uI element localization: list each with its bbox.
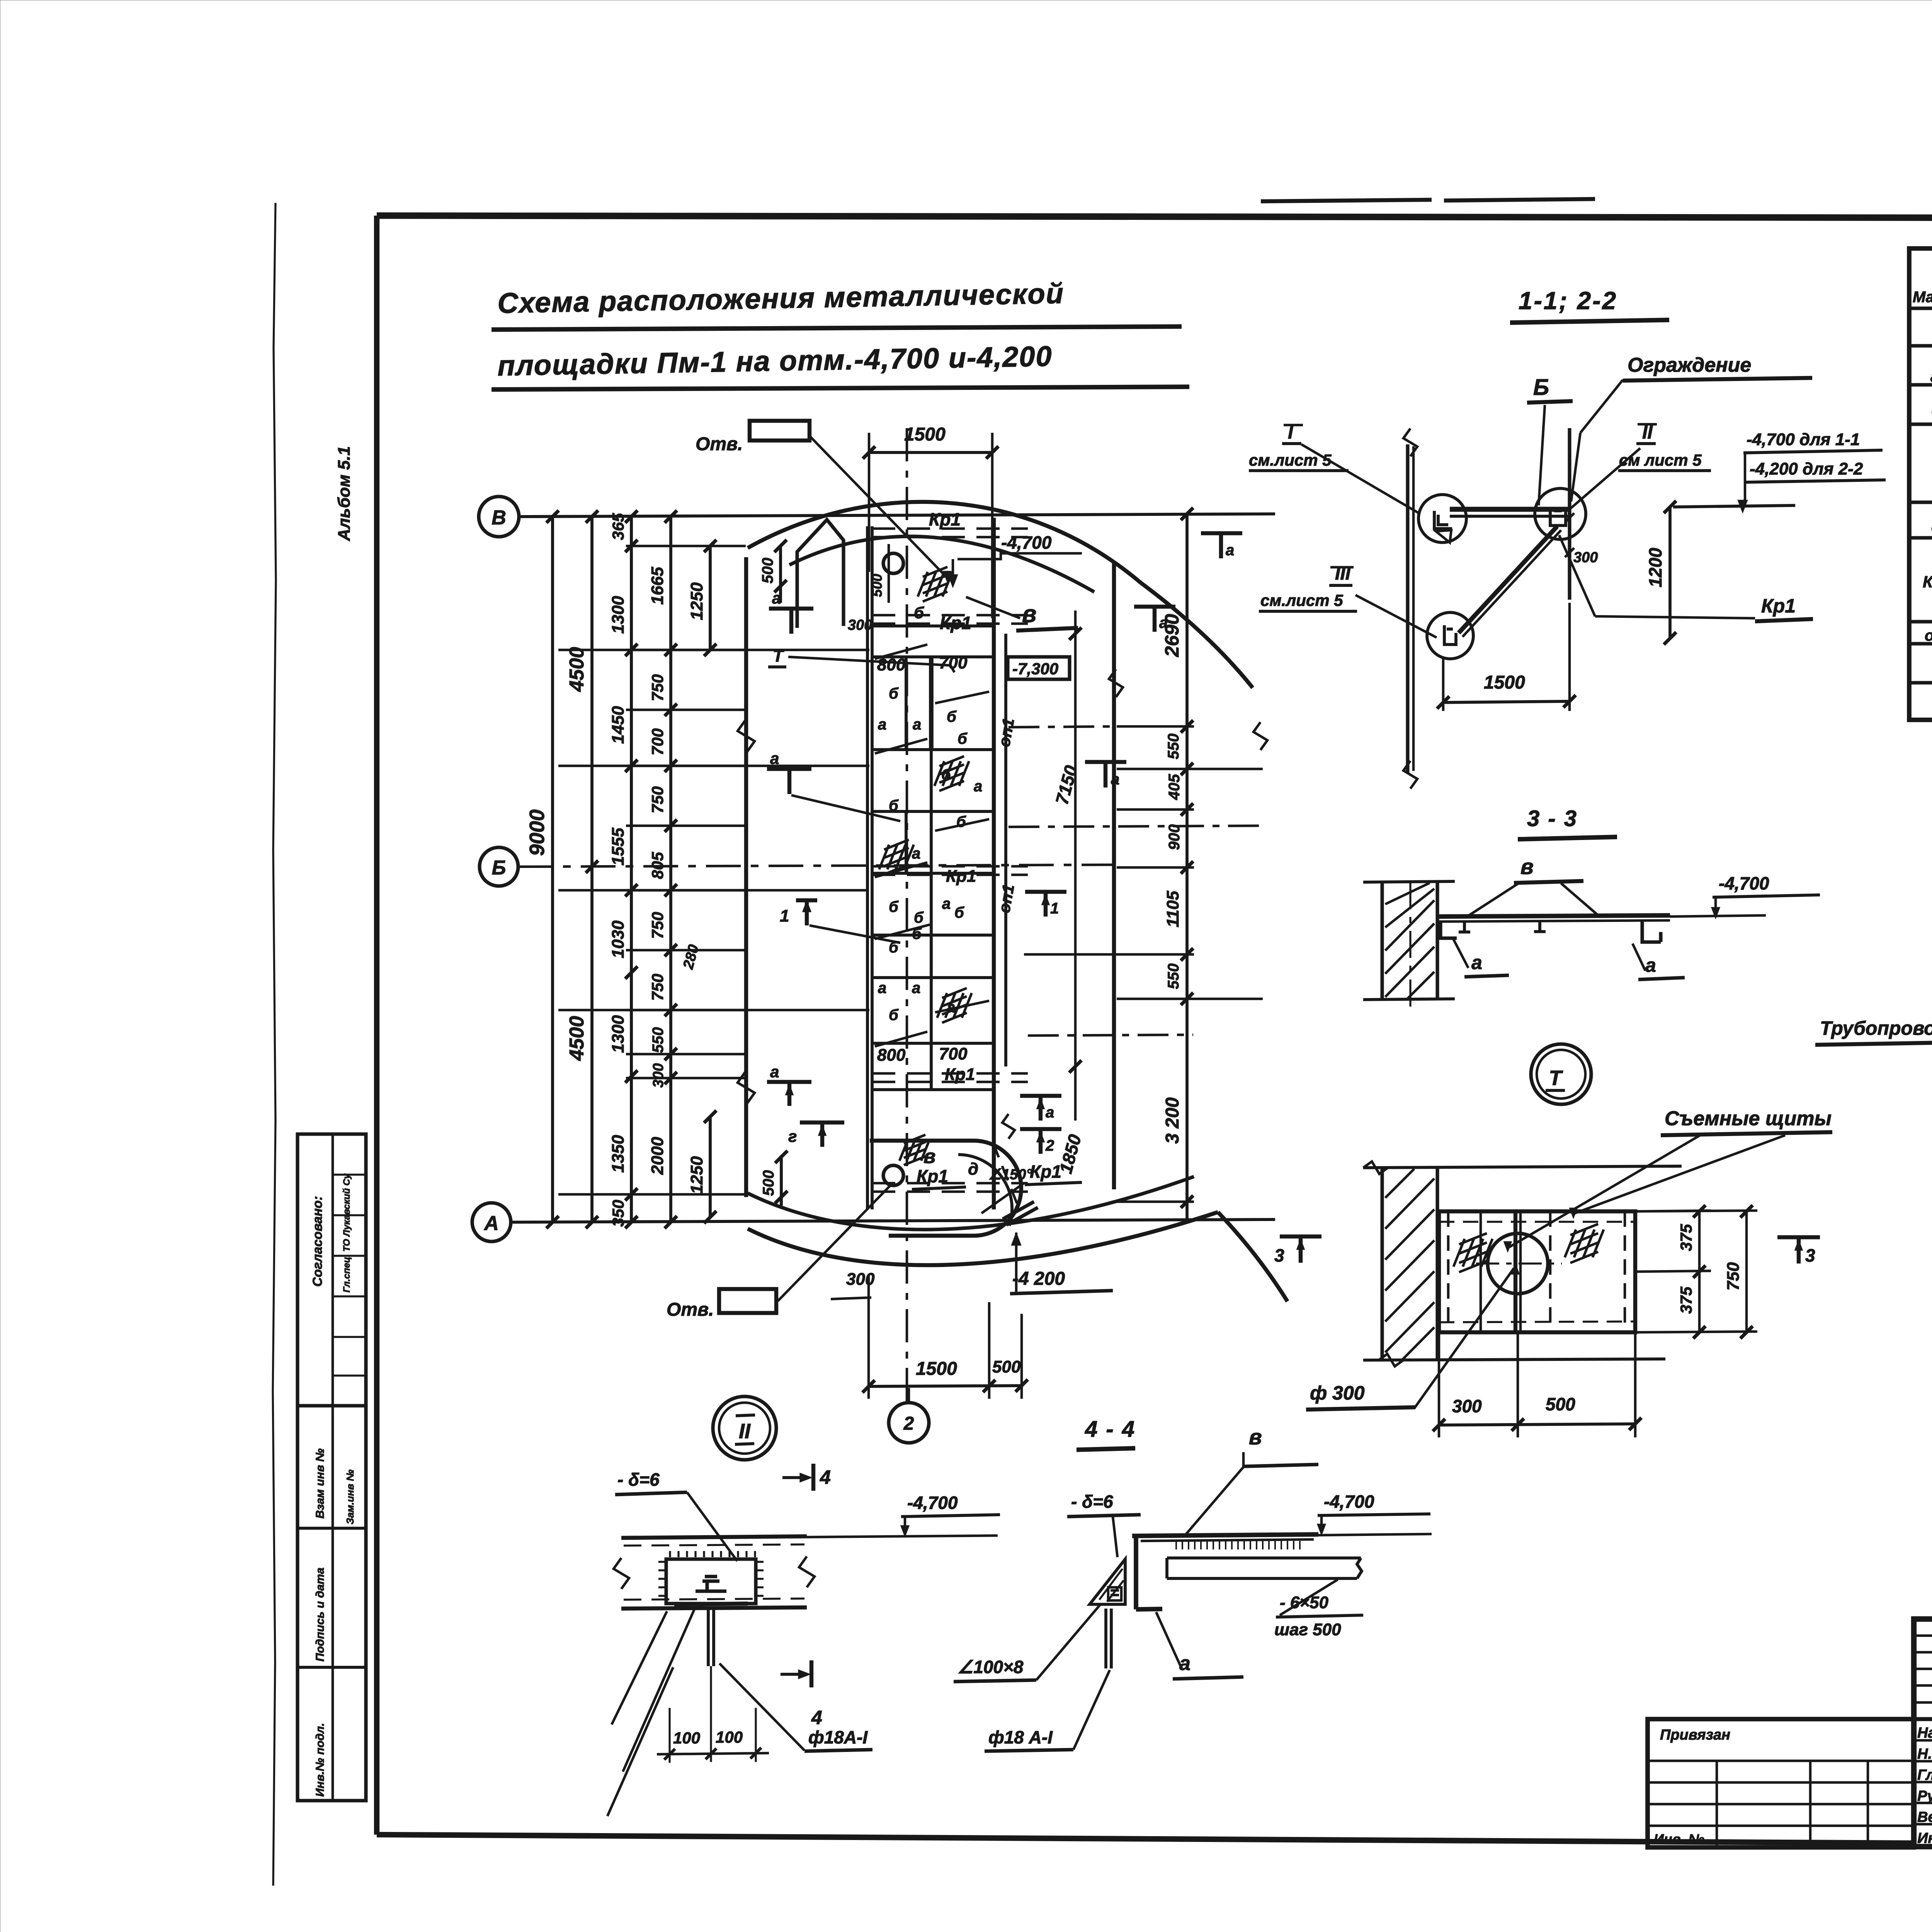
ladder middle rail	[930, 657, 933, 1090]
svg-text:в: в	[923, 1145, 935, 1168]
svg-text:в: в	[1249, 1425, 1262, 1449]
flag Та mid right	[1085, 762, 1126, 787]
axis line В	[519, 514, 1275, 517]
svg-text:Зам.инв №: Зам.инв №	[344, 1469, 356, 1524]
table header line2	[1909, 307, 1932, 308]
svg-text:Инжен.: Инжен.	[1917, 1830, 1932, 1847]
dimension 1500 top	[869, 451, 992, 454]
axis circle А	[472, 1203, 511, 1242]
angle 150 arc	[958, 1155, 1012, 1226]
svg-text:Марка: Марка	[1913, 289, 1932, 306]
svg-text:750: 750	[648, 974, 667, 1001]
svg-text:1: 1	[780, 906, 789, 925]
opl chord line	[1004, 634, 1007, 1066]
dimension 500 upper	[779, 546, 782, 603]
svg-text:300: 300	[1452, 1396, 1482, 1416]
diag leader II second	[607, 1667, 673, 1816]
svg-text:-4,700: -4,700	[1001, 532, 1052, 553]
dimension 1250 upper	[709, 546, 712, 650]
tank top outer arc	[748, 502, 1141, 583]
svg-text:Т: Т	[1549, 1066, 1563, 1090]
svg-text:Б: Б	[1533, 375, 1549, 400]
flag Т2 lower	[1020, 1129, 1061, 1154]
svg-text:а: а	[1111, 771, 1119, 788]
hole circle top	[883, 553, 903, 573]
svg-text:3: 3	[1274, 1245, 1284, 1265]
axis line Б	[518, 865, 1113, 867]
svg-text:а: а	[947, 999, 955, 1016]
svg-text:1555: 1555	[609, 828, 628, 866]
svg-text:4500: 4500	[566, 1016, 588, 1061]
svg-text:Гл.спец. ТО Лукавский Су: Гл.спец. ТО Лукавский Су	[342, 1173, 352, 1293]
channel 4-4	[1132, 1534, 1318, 1536]
axis circle 2 below plan	[889, 1403, 929, 1443]
svg-text:500: 500	[760, 1170, 777, 1196]
right extension lines	[1117, 726, 1194, 1202]
svg-text:1300: 1300	[609, 596, 628, 634]
ladder inner cells	[929, 657, 934, 750]
svg-text:-4,200 для 2-2: -4,200 для 2-2	[1750, 459, 1863, 478]
svg-text:а: а	[878, 716, 886, 733]
svg-text:б: б	[889, 898, 899, 915]
shield plan rect	[1439, 1211, 1635, 1332]
svg-text:см лист 5: см лист 5	[1619, 451, 1702, 469]
svg-text:- δ=6: - δ=6	[1071, 1492, 1113, 1512]
svg-text:Т: Т	[773, 646, 784, 665]
svg-text:750: 750	[1724, 1262, 1743, 1291]
svg-text:300: 300	[650, 1063, 667, 1088]
dim 750	[1745, 1211, 1748, 1332]
dim line 7150	[1074, 611, 1077, 1121]
washer plate II	[674, 1604, 748, 1604]
svg-text:Взам инв №: Взам инв №	[314, 1449, 327, 1519]
svg-text:- δ=6: - δ=6	[617, 1469, 660, 1490]
svg-text:а: а	[770, 749, 779, 767]
svg-text:д: д	[968, 1160, 978, 1179]
tank left wall	[744, 557, 748, 1197]
platform dashed stringers	[872, 527, 1028, 530]
svg-text:500: 500	[1546, 1394, 1575, 1414]
svg-text:Согласовано:: Согласовано:	[310, 1196, 325, 1287]
diag leader II	[623, 1607, 696, 1772]
svg-text:а: а	[912, 845, 920, 862]
flag Та lower	[1020, 1096, 1061, 1121]
svg-text:2: 2	[903, 1413, 914, 1434]
guard rail post	[1568, 428, 1571, 600]
svg-text:4500: 4500	[566, 647, 588, 692]
svg-text:1250: 1250	[687, 1156, 706, 1194]
svg-text:1200: 1200	[1645, 548, 1665, 587]
svg-text:Б: Б	[492, 857, 506, 879]
svg-text:б: б	[947, 708, 957, 725]
section mark 3 right	[1777, 1237, 1820, 1264]
bottom edge line T	[1363, 1359, 1665, 1360]
svg-text:Кр1: Кр1	[945, 1065, 975, 1084]
platform supports 3-3	[1459, 921, 1546, 932]
svg-text:а: а	[772, 589, 781, 607]
plan centre axis line	[906, 428, 908, 1403]
svg-text:1500: 1500	[916, 1359, 957, 1379]
section mark аТ 2	[767, 769, 811, 794]
frame top border	[377, 216, 1932, 219]
small dim 500 top	[888, 544, 890, 603]
node circle III	[1427, 612, 1473, 659]
hatch T right	[1565, 1224, 1604, 1263]
tank bottom inner arc	[748, 1177, 1194, 1230]
dim 375 375	[1698, 1211, 1701, 1332]
table outer	[1909, 248, 1932, 720]
svg-text:-4,700 для 1-1: -4,700 для 1-1	[1747, 430, 1860, 449]
detail circle II	[713, 1396, 776, 1460]
svg-text:550: 550	[650, 1027, 667, 1053]
svg-text:Альбом 5.1: Альбом 5.1	[335, 446, 354, 541]
svg-text:100: 100	[716, 1728, 743, 1746]
svg-text:375: 375	[1677, 1224, 1695, 1251]
svg-text:1105: 1105	[1163, 891, 1182, 927]
svg-text:2: 2	[1045, 1137, 1054, 1154]
dimension chain 4500-4500	[590, 517, 594, 1222]
tank right wall chord	[1112, 561, 1116, 1189]
sidebar upper stamp box	[298, 1134, 366, 1406]
section mark аТ 1	[769, 609, 813, 634]
svg-text:а: а	[770, 1063, 779, 1081]
svg-text:а: а	[878, 980, 886, 997]
title block outer	[1914, 1619, 1932, 1847]
detail II beam	[621, 1536, 807, 1538]
svg-text:1500: 1500	[1484, 672, 1525, 693]
extra Тd flag top	[1201, 533, 1242, 558]
svg-text:Н.контр.: Н.контр.	[1917, 1746, 1932, 1762]
hole circle bottom	[883, 1165, 903, 1185]
frame left border	[374, 216, 379, 1835]
svg-text:-4,700: -4,700	[907, 1493, 958, 1513]
svg-text:а: а	[1471, 952, 1482, 973]
right angle 3-3	[1642, 920, 1661, 942]
svg-text:Нач.отд: Нач.отд	[1917, 1725, 1932, 1741]
svg-text:а: а	[942, 895, 951, 912]
detail circle Т	[1531, 1044, 1591, 1104]
svg-text:-4,700: -4,700	[1324, 1492, 1374, 1512]
svg-text:Трубопровод: Трубопровод	[1820, 1017, 1932, 1039]
svg-text:550: 550	[1165, 963, 1182, 989]
svg-text:3: 3	[1805, 1245, 1815, 1265]
svg-text:∠100×8: ∠100×8	[957, 1657, 1024, 1677]
svg-text:ф 300: ф 300	[1310, 1382, 1365, 1404]
bottom platform lobe	[870, 1141, 1021, 1236]
diagonal brace Кр1	[1459, 526, 1557, 633]
svg-text:1-1; 2-2: 1-1; 2-2	[1519, 287, 1617, 315]
svg-text:500: 500	[992, 1357, 1021, 1376]
svg-text:в: в	[1022, 601, 1036, 628]
svg-text:405: 405	[1166, 774, 1183, 800]
svg-text:Отв.: Отв.	[696, 434, 743, 454]
section mark аТ 3	[767, 1082, 811, 1106]
hatch bottom	[900, 1135, 930, 1165]
svg-text:-4 200: -4 200	[1012, 1269, 1065, 1289]
svg-text:300: 300	[848, 617, 872, 633]
ladder left rail	[866, 526, 869, 1209]
dimension 500 lower	[780, 1155, 783, 1206]
svg-text:Кр1: Кр1	[1030, 1162, 1061, 1182]
section mark 4 top	[811, 1464, 815, 1491]
svg-text:Ограждение: Ограждение	[1628, 354, 1751, 376]
svg-text:Подпись и дата: Подпись и дата	[314, 1568, 327, 1662]
scan paper edge left	[273, 203, 276, 1886]
svg-text:а: а	[974, 778, 982, 795]
extra Та flag right top	[1134, 607, 1175, 632]
svg-text:500: 500	[869, 574, 885, 597]
gusset 4-4	[1090, 1559, 1125, 1604]
break marks plan right	[1109, 669, 1123, 697]
section mark 4 bottom	[810, 1660, 813, 1687]
dimension chain left sub	[630, 517, 633, 1222]
Отв box top	[750, 421, 810, 440]
plate 6x50	[1167, 1558, 1362, 1578]
bottom diagonal strut	[1003, 1202, 1038, 1225]
svg-text:3 - 3: 3 - 3	[1527, 806, 1578, 831]
svg-text:Кр1: Кр1	[1923, 573, 1932, 591]
left angle 3-3	[1440, 922, 1457, 938]
frame top overline segment	[1261, 200, 1432, 201]
title underline 1	[492, 327, 1182, 330]
axis line А	[511, 1219, 1275, 1222]
svg-text:750: 750	[648, 786, 667, 813]
svg-text:В: В	[492, 507, 506, 529]
dimension 1250 lower	[709, 1117, 712, 1217]
svg-text:Инв. №: Инв. №	[1654, 1831, 1704, 1847]
svg-text:300: 300	[1573, 549, 1598, 566]
svg-text:а: а	[1179, 1652, 1190, 1675]
svg-text:365: 365	[609, 513, 627, 540]
anchor rod II	[707, 1609, 710, 1666]
svg-text:700: 700	[939, 1044, 968, 1063]
svg-text:II: II	[739, 1420, 751, 1443]
hatch T left	[1454, 1233, 1493, 1272]
svg-text:Отв.: Отв.	[667, 1299, 714, 1320]
svg-text:1665: 1665	[648, 567, 667, 605]
svg-text:800: 800	[877, 655, 906, 674]
left extension lines	[626, 546, 746, 1078]
svg-text:Кр1: Кр1	[917, 1166, 948, 1186]
svg-text:б: б	[957, 730, 968, 747]
svg-text:700: 700	[648, 728, 667, 755]
left approval table	[1648, 1719, 1914, 1847]
top edge line T	[1363, 1166, 1682, 1168]
svg-text:см.лист 5: см.лист 5	[1260, 591, 1343, 609]
section mark 2 up	[800, 1122, 844, 1147]
stair opening outline	[797, 520, 844, 628]
svg-text:375: 375	[1677, 1286, 1695, 1314]
dim 1500 section	[1443, 701, 1570, 702]
svg-text:-4,700: -4,700	[1719, 873, 1769, 893]
platform rung lines	[872, 624, 994, 628]
svg-text:б: б	[914, 909, 924, 926]
svg-text:300: 300	[846, 1270, 875, 1289]
wall detail T	[1380, 1168, 1384, 1360]
svg-text:4: 4	[811, 1707, 822, 1728]
svg-text:Кр1: Кр1	[940, 613, 971, 633]
svg-text:800: 800	[877, 1046, 906, 1065]
svg-text:б: б	[954, 904, 964, 921]
svg-text:а: а	[1159, 614, 1168, 631]
svg-text:4: 4	[820, 1466, 831, 1488]
right dim chain inner	[1185, 514, 1189, 1219]
svg-text:350: 350	[609, 1200, 627, 1227]
svg-text:750: 750	[648, 674, 667, 701]
gusset box II	[666, 1559, 756, 1604]
svg-text:∠150°: ∠150°	[988, 1167, 1032, 1183]
node circle II	[1535, 488, 1586, 539]
svg-text:ф18 А-I: ф18 А-I	[988, 1727, 1053, 1747]
table row lines	[1909, 345, 1932, 346]
svg-text:Инв.№ подл.: Инв.№ подл.	[314, 1723, 327, 1797]
Отв box bottom	[719, 1289, 776, 1313]
wall 3-3	[1380, 882, 1384, 1000]
dimension chain inner sub	[669, 517, 672, 1222]
svg-text:Кр1: Кр1	[1761, 595, 1796, 617]
platform right rail	[992, 518, 996, 1209]
platform beam 1-1	[1450, 507, 1570, 512]
svg-text:Кр1: Кр1	[946, 867, 976, 886]
svg-text:в: в	[1520, 854, 1534, 879]
svg-text:б: б	[912, 925, 922, 942]
svg-text:а: а	[1226, 542, 1234, 559]
svg-text:-7,300: -7,300	[1012, 660, 1058, 678]
svg-text:2000: 2000	[648, 1137, 667, 1175]
node circle I	[1418, 495, 1466, 543]
hatch mid1	[934, 756, 969, 791]
svg-text:Гл.спец: Гл.спец	[1917, 1767, 1932, 1783]
svg-text:а: а	[912, 980, 920, 997]
svg-text:б: б	[889, 1007, 899, 1024]
svg-text:900: 900	[1166, 824, 1183, 850]
svg-text:б: б	[889, 685, 899, 702]
section mark 3 left	[1280, 1236, 1321, 1263]
svg-text:1: 1	[1050, 900, 1059, 917]
axis circle В	[479, 497, 519, 537]
svg-text:оп1: оп1	[1925, 627, 1932, 644]
section mark 1 up	[796, 900, 817, 925]
svg-text:1250: 1250	[687, 582, 706, 620]
hatch top	[918, 567, 952, 602]
svg-text:А: А	[483, 1212, 499, 1235]
svg-text:1350: 1350	[609, 1135, 628, 1173]
svg-text:Вед.инж.: Вед.инж.	[1917, 1809, 1932, 1825]
title underline 2	[492, 387, 1189, 389]
svg-text:Привязан: Привязан	[1660, 1727, 1730, 1743]
dim 1200	[1668, 507, 1672, 638]
svg-text:500: 500	[759, 558, 776, 583]
svg-text:а: а	[913, 716, 921, 733]
svg-text:100: 100	[673, 1729, 700, 1747]
svg-text:шаг 500: шаг 500	[1274, 1620, 1341, 1639]
tank top inner arc	[789, 536, 1094, 592]
svg-text:750: 750	[648, 912, 667, 939]
hatch mid3	[937, 988, 972, 1023]
pipe circle T	[1488, 1233, 1548, 1294]
svg-text:Рук.груп.: Рук.груп.	[1917, 1788, 1932, 1804]
svg-text:550: 550	[1165, 733, 1182, 759]
tank bottom outer arc	[748, 1212, 1218, 1265]
bolt II	[696, 1577, 726, 1591]
flag Т1 mid	[1025, 892, 1066, 917]
hatch mid2	[879, 840, 914, 874]
svg-text:1300: 1300	[609, 1015, 628, 1053]
svg-text:1500: 1500	[904, 424, 946, 445]
axis circle Б	[480, 847, 518, 886]
svg-text:б: б	[956, 813, 966, 830]
level line 1-1	[1673, 505, 1795, 507]
boxed level -7,300	[1008, 657, 1070, 679]
svg-text:Кр1: Кр1	[929, 509, 961, 529]
svg-text:б: б	[941, 766, 951, 783]
teeth 4-4	[1176, 1541, 1300, 1549]
sidebar lower stamp box	[298, 1406, 366, 1801]
wall line section 1-1	[1406, 444, 1409, 773]
shield inner lines	[1447, 1211, 1450, 1332]
svg-text:г: г	[788, 1127, 797, 1145]
svg-text:а: а	[1645, 954, 1656, 976]
svg-text:1450: 1450	[609, 706, 628, 744]
svg-text:а: а	[1930, 367, 1932, 386]
svg-text:б: б	[914, 604, 924, 622]
svg-text:3 200: 3 200	[1162, 1097, 1183, 1144]
rod 4-4	[1104, 1609, 1107, 1668]
svg-text:б: б	[889, 797, 899, 814]
dimension chain 9000	[551, 517, 554, 1222]
svg-text:805: 805	[648, 852, 667, 879]
svg-text:ф18А-I: ф18А-I	[808, 1727, 868, 1747]
svg-text:4 - 4: 4 - 4	[1085, 1417, 1136, 1442]
frame bottom border	[377, 1835, 1916, 1843]
svg-text:а: а	[1046, 1104, 1054, 1121]
svg-text:1030: 1030	[609, 920, 628, 958]
svg-text:Съемные щиты: Съемные щиты	[1665, 1107, 1832, 1130]
svg-text:9000: 9000	[526, 810, 549, 856]
platform 3-3	[1439, 915, 1670, 917]
